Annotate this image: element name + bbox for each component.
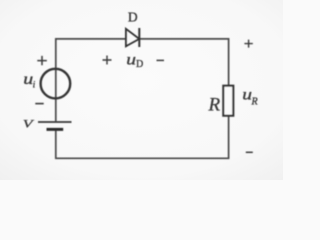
wire: right top from resistor up and to diode cathode xyxy=(139,39,228,86)
svg-text:D: D xyxy=(128,10,138,25)
svg-text:R: R xyxy=(208,95,221,116)
battery V : short thick negative plate xyxy=(47,128,64,131)
label − (bottom of u_R across R) xyxy=(246,151,253,153)
resistor R : box xyxy=(223,86,233,116)
diode D : triangle xyxy=(126,29,139,47)
svg-text:u: u xyxy=(126,50,136,68)
label − (cathode polarity of u_D) xyxy=(157,59,165,61)
label + (top of u_R across R) xyxy=(244,40,252,48)
label − (bottom of u_i source) xyxy=(35,103,43,105)
label + (top of u_i source) xyxy=(37,56,47,65)
svg-text:D: D xyxy=(136,59,143,70)
svg-text:R: R xyxy=(251,97,258,108)
voltage source u_i (circle) xyxy=(41,69,71,99)
wire: from battery bottom, bottom wire, up right side to resistor xyxy=(56,116,229,159)
diode D : cathode bar xyxy=(138,28,140,47)
battery V : long thin positive plate xyxy=(38,121,72,123)
label + (anode polarity of u_D) xyxy=(103,56,112,65)
svg-text:i: i xyxy=(33,81,36,91)
wire: top-left from diode anode to left corner, down to battery xyxy=(56,39,126,121)
